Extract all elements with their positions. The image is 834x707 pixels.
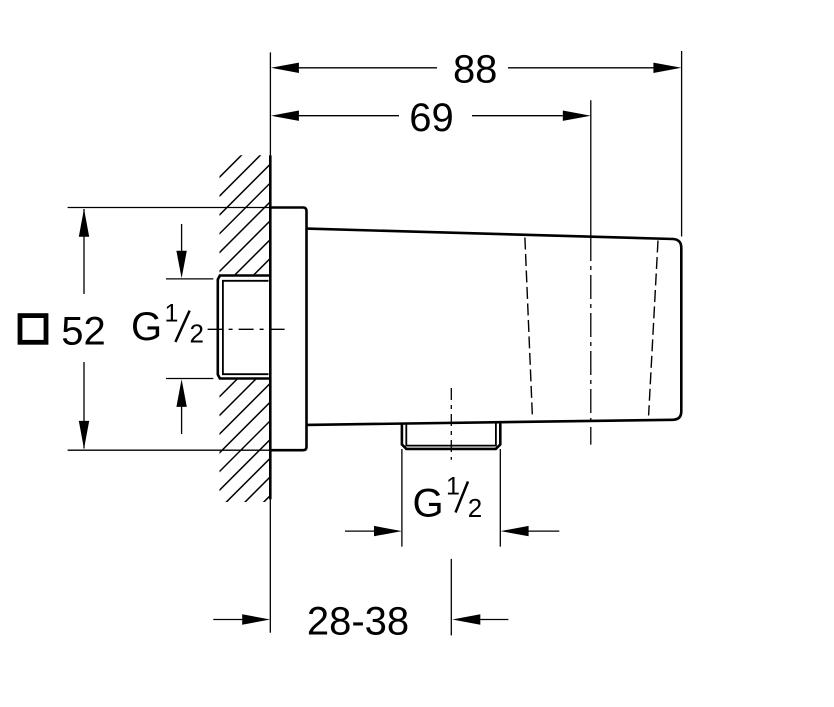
- extension line wall bottom: [269, 499, 271, 632]
- svg-text:2: 2: [468, 493, 482, 523]
- extension line 52 top: [68, 207, 271, 209]
- svg-text:28-38: 28-38: [307, 600, 409, 644]
- holder silhouette dashed left: [525, 238, 533, 417]
- holder silhouette dashed right: [649, 241, 658, 416]
- outlet stub inner: [406, 422, 496, 445]
- svg-text:69: 69: [409, 96, 454, 140]
- svg-text:88: 88: [453, 48, 498, 92]
- extension line nut bottom: [166, 378, 213, 380]
- escutcheon plate: [270, 208, 306, 451]
- wall hatch top block: [0, 100, 429, 560]
- dimension 69 line: [298, 115, 562, 117]
- svg-text:1: 1: [165, 299, 179, 327]
- inlet nut inner: [223, 281, 269, 374]
- centerline body vertical: [590, 237, 592, 445]
- extension line outlet left: [401, 449, 403, 547]
- wall hatch bottom block: [0, 300, 466, 707]
- extension line outlet right: [499, 449, 501, 547]
- nut dimension arrow upper: [181, 224, 183, 251]
- extension line 69 right: [590, 100, 592, 237]
- inlet nut outer: [218, 276, 270, 379]
- svg-text:G: G: [413, 482, 444, 526]
- centerline outlet vertical lower: [450, 559, 452, 636]
- wall face line: [269, 155, 272, 499]
- centerline outlet vertical upper: [450, 388, 452, 460]
- svg-text:2: 2: [190, 319, 204, 349]
- dimension 88 line: [298, 67, 654, 69]
- outlet stub outer: [402, 422, 500, 449]
- extension line wall top: [269, 52, 271, 155]
- dimension 52 line: [83, 209, 85, 449]
- centerline inlet horizontal: [208, 328, 288, 330]
- outlet dimension line: [345, 530, 559, 532]
- svg-text:52: 52: [61, 310, 106, 354]
- extension line nut top: [166, 278, 213, 280]
- extension line 88 right: [681, 51, 683, 237]
- svg-text:G: G: [131, 305, 162, 349]
- square symbol: [20, 316, 46, 343]
- extension line 52 bottom: [68, 449, 271, 451]
- svg-text:1: 1: [446, 472, 460, 500]
- dimension 28-38 line: [213, 619, 508, 621]
- nut dimension arrow lower: [181, 407, 183, 434]
- body outline: [307, 229, 682, 425]
